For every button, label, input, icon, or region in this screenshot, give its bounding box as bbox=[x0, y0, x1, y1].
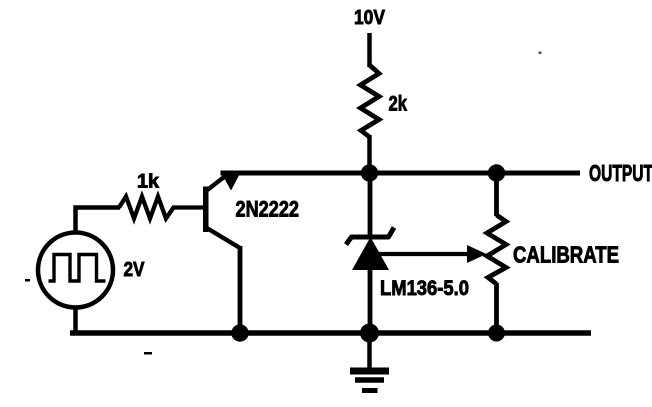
source V1 circle bbox=[38, 233, 113, 308]
junction zener/ground rail bbox=[360, 324, 379, 343]
svg-text:LM136-5.0: LM136-5.0 bbox=[380, 277, 469, 300]
svg-text:1k: 1k bbox=[137, 171, 159, 193]
svg-text:CALIBRATE: CALIBRATE bbox=[513, 242, 619, 268]
wire: R1 bottom to output rail bbox=[367, 135, 372, 175]
resistor R1 2k (vertical zigzag) bbox=[361, 65, 380, 137]
wire: zener D1 bottom lead bbox=[368, 268, 373, 333]
wire: zener D1 top lead bbox=[368, 173, 373, 235]
svg-text:OUTPUT: OUTPUT bbox=[589, 160, 652, 186]
junction pot/ground rail bbox=[488, 325, 505, 342]
node: bottom ground rail bbox=[70, 330, 591, 336]
svg-text:10V: 10V bbox=[354, 6, 385, 29]
zener D1 anode triangle bbox=[352, 237, 389, 270]
wire: base lead from 1k to Q1 bbox=[172, 205, 204, 209]
svg-text:2k: 2k bbox=[389, 92, 408, 116]
svg-text:2N2222: 2N2222 bbox=[236, 197, 300, 222]
scan speck left of source bbox=[25, 279, 30, 282]
junction node A (rail / 2k / zener) bbox=[361, 164, 378, 181]
wire: emitter drop to ground rail bbox=[238, 246, 243, 333]
svg-text:2V: 2V bbox=[124, 259, 146, 281]
wire: 10V supply lead down to R1 bbox=[367, 33, 372, 67]
junction node output/pot top bbox=[488, 164, 505, 181]
junction emitter/ground rail bbox=[231, 324, 248, 341]
transistor Q1 2N2222 bbox=[203, 171, 242, 248]
scan speck below ground rail bbox=[144, 352, 152, 355]
resistor R2 1k (horizontal zigzag) bbox=[119, 197, 174, 219]
wire: source bottom to ground rail bbox=[73, 306, 78, 331]
wire: pot bottom lead bbox=[494, 283, 499, 333]
zener D1 cathode bar bbox=[346, 228, 394, 245]
wire: source top to 1k bbox=[76, 208, 121, 233]
wire: pot wiper line from zener bbox=[376, 252, 470, 256]
source V1 square-wave symbol bbox=[49, 255, 106, 282]
node: top output rail bbox=[221, 171, 581, 176]
ground symbol bbox=[350, 333, 389, 391]
potentiometer R3 (vertical zigzag) bbox=[487, 215, 506, 284]
scan speck top right bbox=[539, 52, 542, 55]
wire: pot top lead bbox=[494, 173, 499, 216]
pot wiper arrowhead bbox=[467, 245, 487, 263]
